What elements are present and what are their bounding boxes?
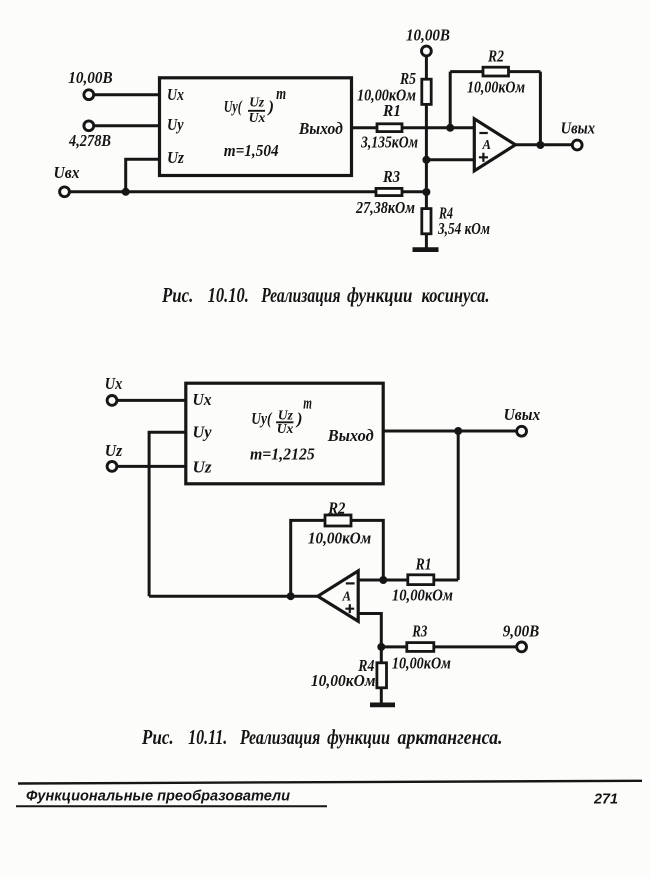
ground (circuit 2): [370, 703, 395, 708]
wire output node down to R1: [457, 431, 460, 580]
op-amp U2 (A): [474, 119, 515, 171]
wire R1 to op-amp inverting input: [402, 126, 474, 129]
resistor R5 10,00кОм: [357, 69, 431, 105]
terminal 4,278В: [68, 121, 111, 150]
svg-text:Uz: Uz: [193, 458, 212, 477]
svg-text:Ux: Ux: [193, 390, 212, 409]
svg-text:A: A: [482, 138, 491, 153]
svg-text:3,135кОм: 3,135кОм: [360, 133, 418, 152]
svg-text:функции: функции: [327, 725, 390, 749]
svg-text:Uy: Uy: [193, 423, 212, 442]
junction inverting node circuit 2: [379, 576, 387, 584]
svg-text:Uвх: Uвх: [54, 163, 80, 182]
terminal Uz (input): [105, 441, 123, 471]
svg-text:Uy(: Uy(: [224, 97, 243, 116]
junction on Uвх wire: [122, 188, 130, 196]
wire R5 down through crossing to divider: [425, 104, 428, 208]
svg-text:Ux: Ux: [277, 422, 294, 437]
svg-text:10,00кОм: 10,00кОм: [392, 586, 453, 605]
wire Uz terminal to Uz pin: [118, 465, 186, 468]
svg-text:4,278В: 4,278В: [68, 131, 111, 150]
svg-text:косинуса.: косинуса.: [422, 283, 490, 307]
resistor R3 27,38кОм: [355, 167, 415, 217]
svg-text:271: 271: [593, 792, 618, 808]
wire inverting node to op-amp: [358, 579, 383, 582]
svg-text:Рис.: Рис.: [141, 725, 174, 749]
wire junction up to Uz pin: [126, 159, 160, 192]
svg-text:10,00кОм: 10,00кОм: [467, 78, 525, 97]
svg-text:): ): [266, 97, 274, 116]
footer rule: [18, 781, 642, 784]
wire feedback right vertical to output: [539, 72, 542, 146]
function block U1 Uy(Uz/Ux)^m m=1,504: [160, 78, 352, 176]
svg-text:10.11.: 10.11.: [188, 725, 227, 749]
wire 4,278В terminal to Uy pin: [95, 124, 160, 127]
wire R3 run to 9,00В terminal: [381, 645, 516, 648]
resistor R1 3,135кОм: [360, 101, 418, 152]
svg-text:Uвых: Uвых: [561, 119, 596, 138]
wire feedback left vertical: [449, 72, 452, 128]
resistor R4 3,54кОм: [422, 204, 490, 239]
terminal 10,00В (left top input): [68, 68, 112, 100]
terminal Ux (input): [105, 374, 123, 405]
junction inverting node feedback tap: [446, 124, 454, 132]
ground (circuit 1): [413, 247, 439, 252]
svg-text:Реализация: Реализация: [260, 283, 340, 307]
function block U3 Uy(Uz/Ux)^m m=1,2125: [186, 383, 383, 484]
resistor R2 10,00кОм (feedback): [467, 47, 525, 97]
svg-text:3,54 кОм: 3,54 кОм: [437, 219, 490, 238]
junction op-amp output node: [287, 592, 295, 600]
wire block output to Uвых: [383, 430, 516, 433]
wire op-amp output feedback up to Uy pin: [149, 432, 186, 596]
svg-text:Uy: Uy: [167, 115, 184, 134]
svg-text:Выход: Выход: [298, 119, 343, 138]
svg-text:Uy(: Uy(: [251, 409, 272, 428]
svg-text:10,00кОм: 10,00кОм: [308, 529, 372, 548]
svg-text:27,38кОм: 27,38кОм: [355, 198, 415, 217]
svg-text:Ux: Ux: [249, 111, 266, 126]
svg-text:R2: R2: [487, 47, 504, 66]
svg-text:Uвых: Uвых: [504, 405, 541, 424]
resistor R4 10,00кОм (circuit 2): [311, 656, 387, 690]
wire R4 to ground: [425, 234, 428, 248]
svg-text:10,00кОм: 10,00кОм: [392, 654, 451, 673]
resistor R2 10,00кОм (circuit 2 feedback): [308, 499, 372, 548]
wire R1 to inverting node: [383, 579, 458, 582]
svg-text:арктангенса.: арктангенса.: [398, 725, 503, 749]
junction divider node circuit 2: [377, 643, 385, 651]
svg-text:R2: R2: [327, 499, 345, 518]
terminal 9,00В: [503, 622, 540, 652]
wire op-amp output long horizontal: [149, 595, 318, 598]
svg-text:9,00В: 9,00В: [503, 622, 540, 641]
svg-text:R3: R3: [411, 622, 427, 641]
terminal Uвых (circuit 1): [561, 119, 596, 150]
resistor R3 10,00кОм (circuit 2): [392, 622, 451, 673]
footer underline: [16, 805, 327, 807]
wire R3 to divider node: [402, 190, 426, 193]
wire op-amp output to Uвых: [515, 143, 571, 146]
svg-text:Выход: Выход: [327, 426, 375, 445]
svg-text:функции: функции: [347, 283, 412, 307]
wire block output to R1: [352, 126, 378, 129]
terminal Uвых (circuit 2): [504, 405, 541, 436]
svg-text:Рис.: Рис.: [161, 283, 193, 307]
svg-text:Ux: Ux: [167, 85, 184, 104]
svg-text:10,00кОм: 10,00кОм: [357, 86, 416, 105]
junction divider node: [422, 188, 430, 196]
caption Рис. 10.11: [141, 725, 502, 749]
svg-text:R3: R3: [382, 167, 400, 186]
wire Uвх long horizontal to R3: [70, 190, 376, 193]
wire feedback top run: [450, 70, 540, 73]
svg-text:Ux: Ux: [105, 374, 123, 393]
svg-text:10,00В: 10,00В: [68, 68, 112, 87]
svg-text:10.10.: 10.10.: [208, 283, 249, 307]
svg-text:Функциональные преобразователи: Функциональные преобразователи: [26, 789, 290, 805]
terminal 10,00В (top supply): [406, 26, 450, 56]
svg-text:m=1,2125: m=1,2125: [250, 445, 315, 464]
svg-text:m: m: [303, 394, 312, 413]
wire R4 vertical: [380, 647, 383, 703]
svg-text:R1: R1: [415, 555, 432, 574]
wire 10,00В terminal to Ux pin: [95, 93, 160, 96]
junction output node: [536, 141, 544, 149]
svg-text:A: A: [342, 590, 351, 605]
svg-text:Uz: Uz: [105, 441, 123, 460]
wire feedback loop R2: [291, 520, 384, 596]
caption Рис. 10.10: [161, 283, 489, 307]
svg-text:10,00кОм: 10,00кОм: [311, 671, 376, 690]
terminal Uвх: [54, 163, 80, 197]
svg-text:): ): [295, 409, 303, 428]
svg-text:m=1,504: m=1,504: [224, 141, 279, 160]
svg-text:m: m: [276, 84, 286, 103]
junction output node circuit 2: [454, 427, 462, 435]
svg-text:Реализация: Реализация: [239, 725, 320, 749]
svg-text:10,00В: 10,00В: [406, 26, 450, 45]
wire to op-amp noninverting input: [426, 158, 474, 161]
op-amp U4 (A, points left): [318, 571, 358, 621]
junction at op-amp noninverting branch: [422, 156, 430, 164]
wire op-amp noninverting input to divider: [358, 614, 381, 647]
wire supply to R5: [425, 57, 428, 80]
resistor R1 10,00кОм (circuit 2): [392, 555, 453, 605]
wire Ux terminal to Ux pin: [118, 399, 186, 402]
svg-text:Uz: Uz: [249, 96, 265, 111]
svg-text:Uz: Uz: [167, 148, 184, 167]
